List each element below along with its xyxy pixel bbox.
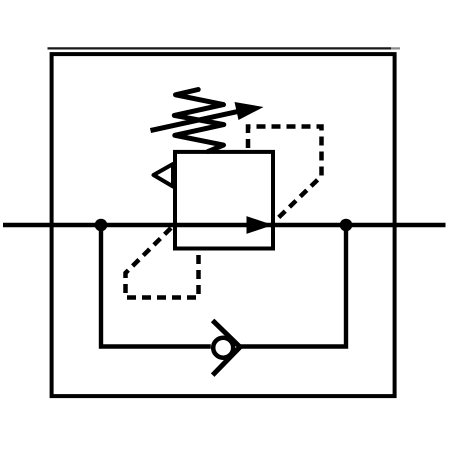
adjustment arrow head — [235, 102, 264, 120]
check valve seat — [214, 322, 240, 373]
flow arrow inside regulator — [247, 216, 274, 234]
junction node left — [95, 219, 108, 232]
bypass wire left leg — [101, 225, 211, 347]
vent triangle (relief port) — [154, 164, 174, 187]
enclosure (assembly boundary) — [52, 54, 395, 396]
junction node right — [340, 219, 353, 232]
check valve ball — [213, 338, 233, 358]
spring (adjustable) — [174, 90, 224, 152]
feedback line (dashed, bottom loop) — [126, 228, 199, 298]
pilot line (dashed, top to downstream) — [248, 127, 322, 222]
bypass wire right leg — [240, 225, 346, 347]
thin rule above enclosure — [48, 47, 401, 49]
regulator body (valve box) — [175, 152, 273, 249]
main flow line (inlet to outlet) — [3, 223, 446, 228]
adjustment arrow shaft — [151, 111, 242, 131]
